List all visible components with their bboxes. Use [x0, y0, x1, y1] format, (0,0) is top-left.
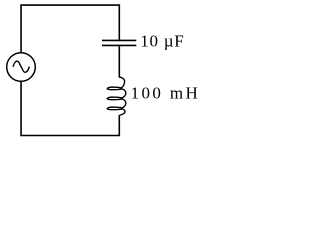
wire: left rail lower segment (source bottom to bottom-left corner) [20, 81, 22, 135]
wire: bottom rail [20, 135, 120, 137]
capacitor C1 plate 1 (top) [102, 39, 136, 41]
wire: top rail [20, 4, 120, 6]
svg-text:10 µF: 10 µF [140, 31, 183, 50]
wire: right rail lower segment (inductor to bottom-right corner) [118, 115, 120, 136]
wire: right rail upper segment (top-right corner to capacitor) [118, 5, 120, 40]
capacitor C1 plate 2 (bottom) [102, 44, 136, 46]
svg-text:100 mH: 100 mH [131, 83, 198, 102]
wire: left rail upper segment (source top to top-left corner) [20, 5, 22, 53]
wire: right rail middle segment (capacitor to inductor) [118, 46, 120, 77]
inductor L1 coil (3 loops) [107, 77, 126, 115]
AC voltage source V1 circle [7, 53, 36, 82]
AC source sine wave glyph [13, 61, 29, 72]
